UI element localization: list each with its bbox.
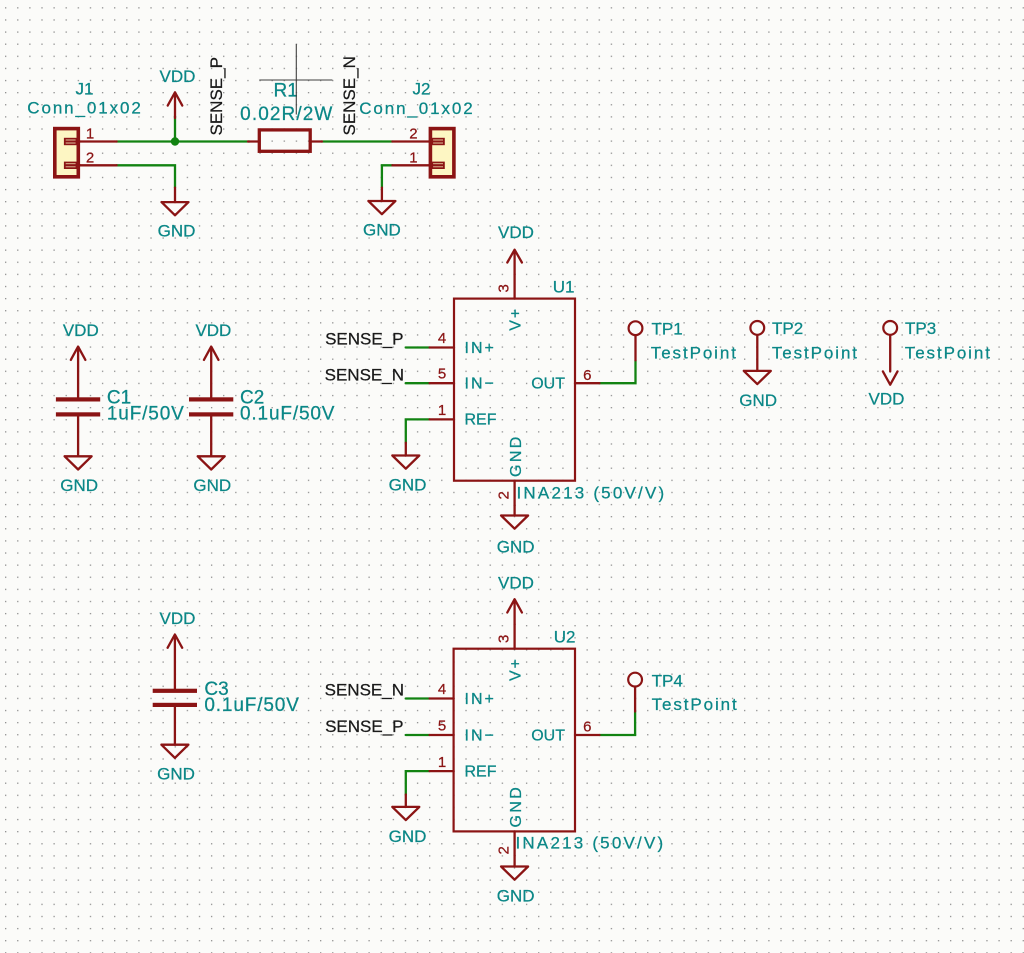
C2 bottom pin bbox=[210, 417, 212, 457]
svg-text:VDD: VDD bbox=[160, 67, 196, 86]
svg-text:V+: V+ bbox=[508, 307, 525, 331]
svg-text:SENSE_N: SENSE_N bbox=[325, 365, 404, 384]
svg-text:0.02R/2W: 0.02R/2W bbox=[240, 104, 333, 125]
test point TP2 bbox=[750, 319, 859, 371]
svg-text:6: 6 bbox=[583, 718, 591, 735]
svg-text:GND: GND bbox=[193, 476, 231, 495]
svg-text:IN−: IN− bbox=[465, 376, 496, 393]
test point TP3 bbox=[883, 319, 992, 371]
svg-text:VDD: VDD bbox=[869, 389, 905, 408]
J2 pin 1 inner stub bbox=[429, 164, 443, 166]
U2 pin 3 V+ bbox=[513, 624, 515, 648]
wire J2 pin1 to GND corner bbox=[382, 165, 393, 187]
svg-text:TestPoint: TestPoint bbox=[651, 343, 738, 362]
C2 top pin bbox=[210, 348, 212, 397]
R1 body bbox=[259, 130, 310, 151]
svg-text:TP4: TP4 bbox=[652, 671, 683, 690]
svg-text:GND: GND bbox=[508, 785, 525, 828]
svg-text:5: 5 bbox=[438, 717, 446, 734]
U2 pin 1 REF bbox=[430, 770, 454, 772]
U1 pin 3 V+ bbox=[513, 274, 515, 298]
svg-text:GND: GND bbox=[363, 221, 401, 240]
J2 pin 2 notch bbox=[432, 139, 444, 145]
svg-text:GND: GND bbox=[389, 475, 427, 494]
J2 pin 2 inner stub bbox=[429, 140, 443, 142]
svg-text:GND: GND bbox=[157, 764, 195, 783]
ground GND at U1 REF bbox=[389, 443, 427, 495]
ground GND below U1 pin 2 bbox=[497, 505, 535, 556]
power VDD above C1 bbox=[63, 321, 99, 360]
svg-text:GND: GND bbox=[158, 221, 196, 240]
svg-text:Conn_01x02: Conn_01x02 bbox=[27, 99, 142, 118]
ground GND below C2 bbox=[193, 456, 231, 495]
J1 pin 2 notch bbox=[65, 163, 77, 169]
svg-text:VDD: VDD bbox=[195, 321, 231, 340]
J1 pin 2 inner stub bbox=[66, 164, 80, 166]
wire U1 OUT to TP1 bbox=[599, 360, 635, 383]
test point TP4 bbox=[628, 671, 738, 714]
U1 pin 4 IN+ bbox=[430, 346, 454, 348]
svg-text:GND: GND bbox=[508, 434, 525, 477]
svg-text:1: 1 bbox=[438, 754, 446, 771]
R1 right pin bbox=[310, 140, 322, 142]
svg-text:J1: J1 bbox=[76, 80, 94, 99]
cursor crosshair bbox=[259, 44, 332, 114]
svg-text:2: 2 bbox=[496, 846, 513, 854]
J1 pin 1 notch bbox=[65, 139, 77, 145]
svg-text:3: 3 bbox=[496, 284, 513, 292]
U2 pin 2 GND bbox=[513, 831, 515, 855]
wire SENSE_P label to U1 pin 4 bbox=[406, 346, 430, 348]
C2 top plate bbox=[189, 397, 233, 401]
svg-text:TestPoint: TestPoint bbox=[652, 695, 739, 714]
svg-text:VDD: VDD bbox=[498, 223, 534, 242]
wire U2 REF to GND bbox=[406, 771, 430, 794]
svg-text:IN+: IN+ bbox=[465, 691, 496, 708]
ground GND below C1 bbox=[60, 456, 98, 495]
connector J1 bbox=[27, 80, 142, 177]
svg-text:1uF/50V: 1uF/50V bbox=[107, 403, 185, 424]
wire SENSE_N label to U1 pin 5 bbox=[406, 382, 430, 384]
wire J1 pin2 to GND corner bbox=[117, 165, 175, 187]
resistor R1 bbox=[240, 80, 333, 151]
ground GND at U2 REF bbox=[389, 795, 427, 847]
U2 pin 6 OUT bbox=[575, 734, 600, 736]
U1 pin 5 IN- bbox=[430, 382, 454, 384]
connector J2 bbox=[359, 79, 474, 176]
svg-text:TP1: TP1 bbox=[652, 319, 683, 338]
svg-text:INA213 (50V/V): INA213 (50V/V) bbox=[517, 484, 667, 503]
svg-text:1: 1 bbox=[409, 149, 417, 166]
power VDD above U1 bbox=[498, 223, 534, 274]
U1 body bbox=[454, 299, 575, 481]
wire SENSE_N label to U2 pin 4 bbox=[406, 697, 430, 699]
op-amp U2 INA213 bbox=[430, 624, 666, 856]
C2 bottom plate bbox=[189, 412, 233, 416]
svg-text:0.1uF/50V: 0.1uF/50V bbox=[204, 695, 299, 716]
svg-text:IN+: IN+ bbox=[465, 340, 496, 357]
J2 body bbox=[430, 129, 454, 177]
svg-text:VDD: VDD bbox=[63, 321, 99, 340]
svg-text:VDD: VDD bbox=[160, 609, 196, 628]
svg-text:2: 2 bbox=[409, 126, 417, 143]
svg-text:J2: J2 bbox=[413, 79, 431, 98]
svg-text:TestPoint: TestPoint bbox=[772, 344, 859, 363]
svg-text:V+: V+ bbox=[508, 657, 525, 681]
wire J1 pin1 to R1 (net SENSE_P) bbox=[117, 140, 250, 142]
svg-text:2: 2 bbox=[86, 149, 94, 166]
svg-text:3: 3 bbox=[496, 635, 513, 643]
wire U2 OUT to TP4 bbox=[600, 712, 636, 736]
svg-text:0.1uF/50V: 0.1uF/50V bbox=[240, 403, 335, 424]
wire junction to VDD bbox=[174, 116, 176, 141]
C1 bottom pin bbox=[77, 417, 79, 457]
capacitor C3 bbox=[153, 636, 300, 744]
C1 top plate bbox=[56, 397, 100, 401]
svg-text:U2: U2 bbox=[554, 627, 576, 646]
capacitor C1 bbox=[56, 348, 185, 456]
J1 pin 1 bbox=[80, 140, 117, 142]
svg-text:TP2: TP2 bbox=[772, 319, 803, 338]
U1 pin 6 OUT bbox=[575, 382, 599, 384]
power VDD above C3 bbox=[160, 609, 196, 648]
J1 pin 2 bbox=[80, 164, 117, 166]
wire U1 REF to GND bbox=[406, 419, 430, 442]
svg-text:GND: GND bbox=[389, 827, 427, 846]
svg-text:REF: REF bbox=[465, 412, 497, 429]
ground GND below J2 bbox=[363, 188, 401, 240]
U1 pin 2 GND bbox=[513, 481, 515, 505]
svg-text:SENSE_P: SENSE_P bbox=[325, 717, 403, 736]
op-amp U1 INA213 bbox=[430, 274, 667, 505]
svg-text:4: 4 bbox=[438, 681, 446, 698]
junction node SENSE_P bbox=[171, 137, 179, 145]
wire R1 to J2 pin2 (net SENSE_N) bbox=[322, 140, 393, 142]
power VDD above U2 bbox=[498, 574, 534, 625]
svg-text:OUT: OUT bbox=[531, 376, 565, 393]
C1 top pin bbox=[77, 348, 79, 397]
svg-text:U1: U1 bbox=[553, 278, 575, 297]
C3 top plate bbox=[153, 689, 197, 693]
svg-text:1: 1 bbox=[438, 402, 446, 419]
power VDD at J1 junction bbox=[160, 67, 196, 118]
svg-text:5: 5 bbox=[438, 366, 446, 383]
svg-text:SENSE_N: SENSE_N bbox=[340, 56, 359, 135]
wire SENSE_P label to U2 pin 5 bbox=[406, 734, 430, 736]
svg-text:GND: GND bbox=[60, 476, 98, 495]
J1 pin 1 inner stub bbox=[66, 140, 80, 142]
power VDD above C2 bbox=[195, 321, 231, 360]
svg-text:VDD: VDD bbox=[498, 574, 534, 593]
svg-text:6: 6 bbox=[583, 367, 591, 384]
svg-text:SENSE_N: SENSE_N bbox=[325, 681, 404, 700]
C3 bottom pin bbox=[174, 707, 176, 745]
U2 body bbox=[454, 649, 575, 832]
power VDD below TP3 (inverted) bbox=[869, 371, 905, 408]
svg-text:OUT: OUT bbox=[531, 727, 565, 744]
svg-text:SENSE_P: SENSE_P bbox=[325, 330, 403, 349]
svg-text:GND: GND bbox=[497, 538, 535, 557]
U2 pin 4 IN+ bbox=[430, 697, 454, 699]
ground GND below U2 pin 2 bbox=[497, 856, 535, 906]
svg-text:1: 1 bbox=[86, 126, 94, 143]
C3 top pin bbox=[174, 636, 176, 688]
C3 bottom plate bbox=[153, 703, 197, 707]
svg-text:TestPoint: TestPoint bbox=[905, 344, 992, 363]
J2 pin 2 bbox=[392, 140, 429, 142]
svg-text:INA213 (50V/V): INA213 (50V/V) bbox=[516, 834, 666, 853]
svg-text:2: 2 bbox=[496, 491, 513, 499]
svg-text:R1: R1 bbox=[274, 80, 298, 101]
J2 pin 1 bbox=[392, 164, 429, 166]
U2 pin 5 IN- bbox=[430, 734, 454, 736]
J1 body bbox=[55, 129, 79, 177]
capacitor C2 bbox=[189, 348, 335, 456]
ground GND below TP2 bbox=[739, 371, 777, 410]
U1 pin 1 REF bbox=[430, 418, 454, 420]
svg-text:IN−: IN− bbox=[465, 727, 496, 744]
svg-text:Conn_01x02: Conn_01x02 bbox=[359, 99, 474, 118]
svg-text:GND: GND bbox=[739, 391, 777, 410]
test point TP1 bbox=[629, 319, 738, 362]
svg-text:SENSE_P: SENSE_P bbox=[207, 57, 226, 135]
J2 pin 1 notch bbox=[432, 163, 444, 169]
C1 bottom plate bbox=[56, 412, 100, 416]
svg-text:GND: GND bbox=[497, 887, 535, 906]
svg-text:4: 4 bbox=[438, 330, 446, 347]
ground GND below C3 bbox=[157, 745, 195, 784]
ground GND below J1 bbox=[158, 188, 196, 241]
svg-text:TP3: TP3 bbox=[905, 319, 936, 338]
R1 left pin bbox=[248, 140, 259, 142]
svg-text:REF: REF bbox=[465, 763, 497, 780]
